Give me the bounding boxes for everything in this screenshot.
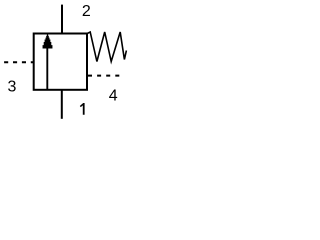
flow arrow shaft xyxy=(46,47,48,90)
pilot line port 4 (dashed) xyxy=(88,75,120,77)
svg-text:4: 4 xyxy=(109,87,118,104)
pin label 1 xyxy=(80,103,85,115)
valve body V1 xyxy=(34,34,87,90)
pilot line port 3 (dashed) xyxy=(4,61,34,63)
spring xyxy=(87,32,126,62)
wire port 2 line xyxy=(61,5,63,34)
background xyxy=(0,0,128,128)
svg-text:2: 2 xyxy=(82,3,91,20)
flow arrow head xyxy=(43,34,53,49)
svg-text:3: 3 xyxy=(8,79,17,96)
wire port 1 line xyxy=(61,90,63,119)
